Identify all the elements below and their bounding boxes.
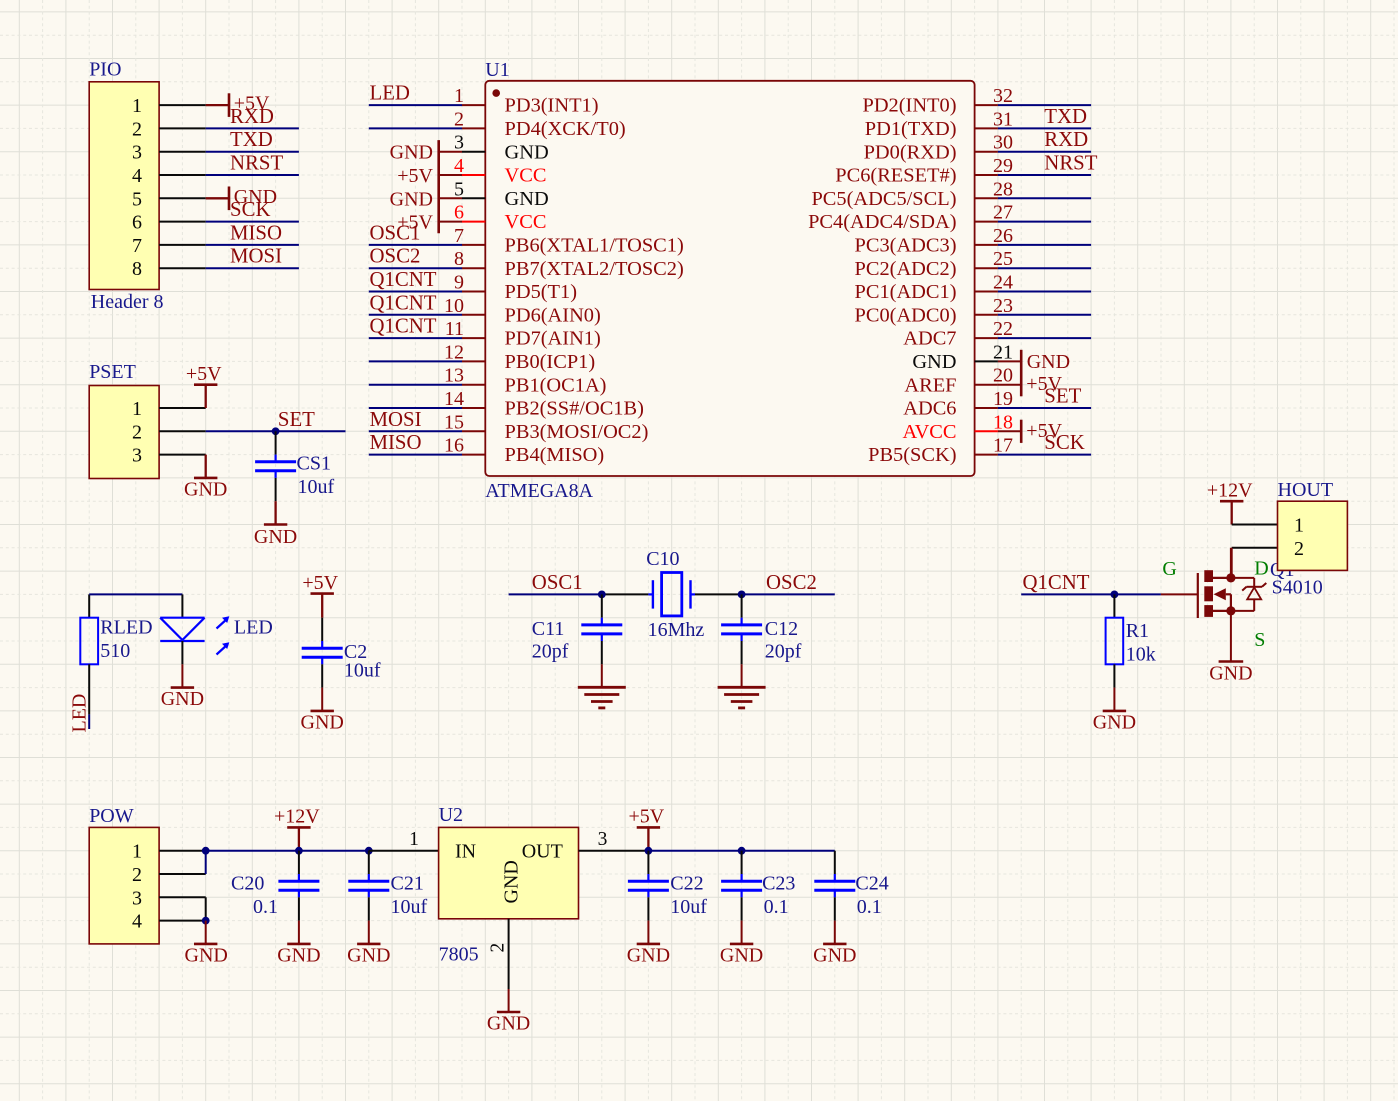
svg-text:19: 19: [993, 388, 1013, 410]
svg-text:+12V: +12V: [1207, 480, 1253, 502]
svg-text:PB7(XTAL2/TOSC2): PB7(XTAL2/TOSC2): [505, 258, 684, 280]
svg-text:GND: GND: [505, 188, 549, 210]
svg-text:G: G: [1162, 558, 1176, 580]
svg-text:S4010: S4010: [1272, 576, 1323, 598]
svg-text:20pf: 20pf: [532, 641, 569, 663]
svg-text:GND: GND: [813, 944, 856, 966]
svg-text:+5V: +5V: [397, 165, 433, 187]
svg-text:GND: GND: [501, 860, 523, 903]
svg-text:PC5(ADC5/SCL): PC5(ADC5/SCL): [811, 188, 956, 210]
svg-text:U1: U1: [485, 59, 509, 81]
svg-text:PSET: PSET: [89, 361, 136, 383]
svg-text:TXD: TXD: [230, 128, 273, 151]
svg-text:GND: GND: [161, 688, 204, 710]
svg-text:PB5(SCK): PB5(SCK): [868, 444, 956, 466]
svg-text:GND: GND: [912, 351, 956, 373]
svg-text:6: 6: [132, 212, 142, 234]
svg-text:OSC1: OSC1: [532, 571, 583, 594]
svg-text:0.1: 0.1: [764, 896, 789, 918]
svg-text:10k: 10k: [1126, 643, 1156, 665]
svg-text:1: 1: [132, 841, 142, 863]
svg-text:15: 15: [444, 411, 464, 433]
svg-text:4: 4: [454, 155, 464, 177]
svg-text:13: 13: [444, 365, 464, 387]
svg-text:CS1: CS1: [297, 453, 331, 475]
svg-text:17: 17: [993, 435, 1013, 457]
svg-text:GND: GND: [1027, 351, 1070, 373]
svg-text:PB3(MOSI/OC2): PB3(MOSI/OC2): [505, 421, 649, 443]
svg-text:VCC: VCC: [505, 165, 547, 187]
svg-text:MISO: MISO: [370, 431, 422, 454]
svg-text:22: 22: [993, 318, 1013, 340]
svg-text:26: 26: [993, 225, 1013, 247]
svg-text:25: 25: [993, 248, 1013, 270]
svg-text:Q1CNT: Q1CNT: [370, 315, 437, 338]
svg-text:Q1CNT: Q1CNT: [1023, 571, 1090, 594]
svg-text:LED: LED: [69, 694, 91, 733]
svg-text:+5V: +5V: [302, 572, 338, 594]
svg-text:4: 4: [132, 165, 142, 187]
svg-text:9: 9: [454, 272, 464, 294]
svg-text:MISO: MISO: [230, 221, 282, 244]
svg-text:PC0(ADC0): PC0(ADC0): [855, 304, 957, 326]
svg-text:PD0(RXD): PD0(RXD): [864, 141, 957, 163]
svg-text:7: 7: [132, 235, 142, 257]
svg-text:10uf: 10uf: [391, 896, 428, 918]
svg-text:PB1(OC1A): PB1(OC1A): [505, 374, 607, 396]
svg-text:20: 20: [993, 365, 1013, 387]
svg-text:D: D: [1254, 557, 1268, 579]
svg-text:GND: GND: [301, 711, 344, 733]
svg-text:27: 27: [993, 202, 1013, 224]
svg-text:3: 3: [454, 132, 464, 154]
svg-text:3: 3: [132, 887, 142, 909]
svg-text:29: 29: [993, 155, 1013, 177]
svg-text:POW: POW: [89, 805, 134, 827]
svg-text:C22: C22: [670, 873, 703, 895]
svg-text:6: 6: [454, 202, 464, 224]
svg-text:C11: C11: [532, 618, 565, 640]
svg-text:Header 8: Header 8: [91, 291, 164, 313]
svg-text:NRST: NRST: [1044, 152, 1097, 175]
svg-text:OUT: OUT: [522, 841, 563, 863]
svg-text:GND: GND: [505, 141, 549, 163]
svg-text:30: 30: [993, 132, 1013, 154]
svg-text:LED: LED: [370, 82, 410, 105]
svg-text:SET: SET: [278, 408, 315, 431]
svg-text:S: S: [1254, 629, 1265, 651]
svg-text:+5V: +5V: [186, 363, 222, 385]
svg-text:GND: GND: [277, 944, 320, 966]
svg-text:0.1: 0.1: [253, 896, 278, 918]
svg-text:C12: C12: [765, 618, 798, 640]
svg-text:4: 4: [132, 911, 142, 933]
svg-text:8: 8: [454, 248, 464, 270]
svg-text:21: 21: [993, 341, 1013, 363]
svg-text:PIO: PIO: [89, 59, 121, 81]
svg-text:1: 1: [1294, 515, 1304, 537]
svg-text:1: 1: [132, 95, 142, 117]
svg-text:2: 2: [454, 108, 464, 130]
svg-text:PD6(AIN0): PD6(AIN0): [505, 304, 601, 326]
svg-text:VCC: VCC: [505, 211, 547, 233]
svg-text:31: 31: [993, 108, 1013, 130]
svg-text:0.1: 0.1: [857, 896, 882, 918]
svg-text:GND: GND: [1209, 663, 1252, 685]
svg-text:C20: C20: [231, 873, 264, 895]
svg-text:GND: GND: [627, 944, 670, 966]
svg-text:LED: LED: [234, 617, 273, 639]
svg-text:OSC2: OSC2: [370, 245, 421, 268]
svg-text:C10: C10: [646, 548, 679, 570]
svg-text:16: 16: [444, 435, 464, 457]
svg-text:10uf: 10uf: [670, 896, 707, 918]
svg-text:+12V: +12V: [274, 806, 320, 828]
svg-text:C21: C21: [391, 873, 424, 895]
svg-text:PC1(ADC1): PC1(ADC1): [855, 281, 957, 303]
svg-text:Q1CNT: Q1CNT: [370, 268, 437, 291]
svg-text:IN: IN: [455, 841, 476, 863]
svg-text:+5V: +5V: [1026, 373, 1062, 395]
svg-text:5: 5: [132, 188, 142, 210]
svg-text:OSC2: OSC2: [766, 571, 817, 594]
svg-text:PB6(XTAL1/TOSC1): PB6(XTAL1/TOSC1): [505, 235, 684, 257]
svg-text:3: 3: [598, 829, 608, 850]
svg-text:3: 3: [132, 445, 142, 467]
svg-text:PD3(INT1): PD3(INT1): [505, 95, 599, 117]
svg-text:C23: C23: [762, 873, 795, 895]
svg-text:GND: GND: [254, 526, 297, 548]
svg-text:1: 1: [409, 829, 419, 850]
svg-text:PC4(ADC4/SDA): PC4(ADC4/SDA): [808, 211, 956, 233]
svg-text:23: 23: [993, 295, 1013, 317]
svg-text:RXD: RXD: [1044, 128, 1088, 151]
svg-text:20pf: 20pf: [765, 641, 802, 663]
svg-text:C24: C24: [855, 873, 888, 895]
svg-text:+5V: +5V: [629, 806, 665, 828]
svg-text:10uf: 10uf: [344, 660, 381, 682]
svg-text:16Mhz: 16Mhz: [648, 619, 705, 641]
svg-text:PD5(T1): PD5(T1): [505, 281, 578, 303]
svg-text:GND: GND: [390, 142, 433, 164]
svg-text:ADC7: ADC7: [903, 328, 956, 350]
svg-text:510: 510: [100, 640, 130, 662]
svg-text:TXD: TXD: [1044, 105, 1087, 128]
svg-text:PC3(ADC3): PC3(ADC3): [855, 235, 957, 257]
svg-text:32: 32: [993, 85, 1013, 107]
svg-text:PB0(ICP1): PB0(ICP1): [505, 351, 596, 373]
svg-text:10: 10: [444, 295, 464, 317]
svg-text:2: 2: [1294, 538, 1304, 560]
svg-text:Q1CNT: Q1CNT: [370, 291, 437, 314]
svg-text:28: 28: [993, 178, 1013, 200]
svg-text:2: 2: [132, 421, 142, 443]
svg-text:3: 3: [132, 142, 142, 164]
svg-text:12: 12: [444, 341, 464, 363]
svg-text:MOSI: MOSI: [230, 245, 282, 268]
svg-text:ADC6: ADC6: [903, 398, 956, 420]
svg-text:PD1(TXD): PD1(TXD): [865, 118, 957, 140]
svg-text:NRST: NRST: [230, 152, 283, 175]
svg-text:GND: GND: [185, 944, 228, 966]
svg-text:1: 1: [132, 398, 142, 420]
svg-text:PC2(ADC2): PC2(ADC2): [855, 258, 957, 280]
svg-text:PD2(INT0): PD2(INT0): [862, 95, 956, 117]
svg-text:GND: GND: [720, 944, 763, 966]
svg-text:2: 2: [132, 864, 142, 886]
svg-text:GND: GND: [184, 478, 227, 500]
svg-text:2: 2: [488, 943, 509, 953]
svg-text:+5V: +5V: [397, 212, 433, 234]
svg-text:AVCC: AVCC: [902, 421, 956, 443]
svg-text:10uf: 10uf: [298, 476, 335, 498]
svg-text:24: 24: [993, 272, 1013, 294]
svg-text:+5V: +5V: [1026, 420, 1062, 442]
svg-text:11: 11: [445, 318, 464, 340]
svg-text:GND: GND: [234, 186, 277, 208]
svg-text:7805: 7805: [439, 944, 479, 966]
svg-text:GND: GND: [390, 188, 433, 210]
svg-text:AREF: AREF: [904, 374, 956, 396]
svg-text:14: 14: [444, 388, 464, 410]
svg-text:+5V: +5V: [234, 93, 270, 115]
svg-text:RLED: RLED: [100, 617, 152, 639]
svg-text:8: 8: [132, 258, 142, 280]
svg-text:GND: GND: [347, 944, 390, 966]
svg-text:2: 2: [132, 118, 142, 140]
svg-text:PB4(MISO): PB4(MISO): [505, 444, 605, 466]
svg-text:U2: U2: [439, 804, 463, 826]
svg-text:5: 5: [454, 178, 464, 200]
svg-text:R1: R1: [1126, 620, 1149, 642]
svg-text:1: 1: [454, 85, 464, 107]
svg-text:MOSI: MOSI: [370, 408, 422, 431]
svg-text:ATMEGA8A: ATMEGA8A: [485, 480, 593, 502]
svg-text:GND: GND: [1093, 711, 1136, 733]
svg-text:PD7(AIN1): PD7(AIN1): [505, 328, 601, 350]
svg-text:PC6(RESET#): PC6(RESET#): [835, 165, 956, 187]
svg-text:HOUT: HOUT: [1278, 479, 1334, 501]
svg-text:PD4(XCK/T0): PD4(XCK/T0): [505, 118, 626, 140]
svg-text:GND: GND: [487, 1013, 530, 1035]
svg-text:7: 7: [454, 225, 464, 247]
svg-text:PB2(SS#/OC1B): PB2(SS#/OC1B): [505, 398, 644, 420]
svg-text:18: 18: [993, 411, 1013, 433]
